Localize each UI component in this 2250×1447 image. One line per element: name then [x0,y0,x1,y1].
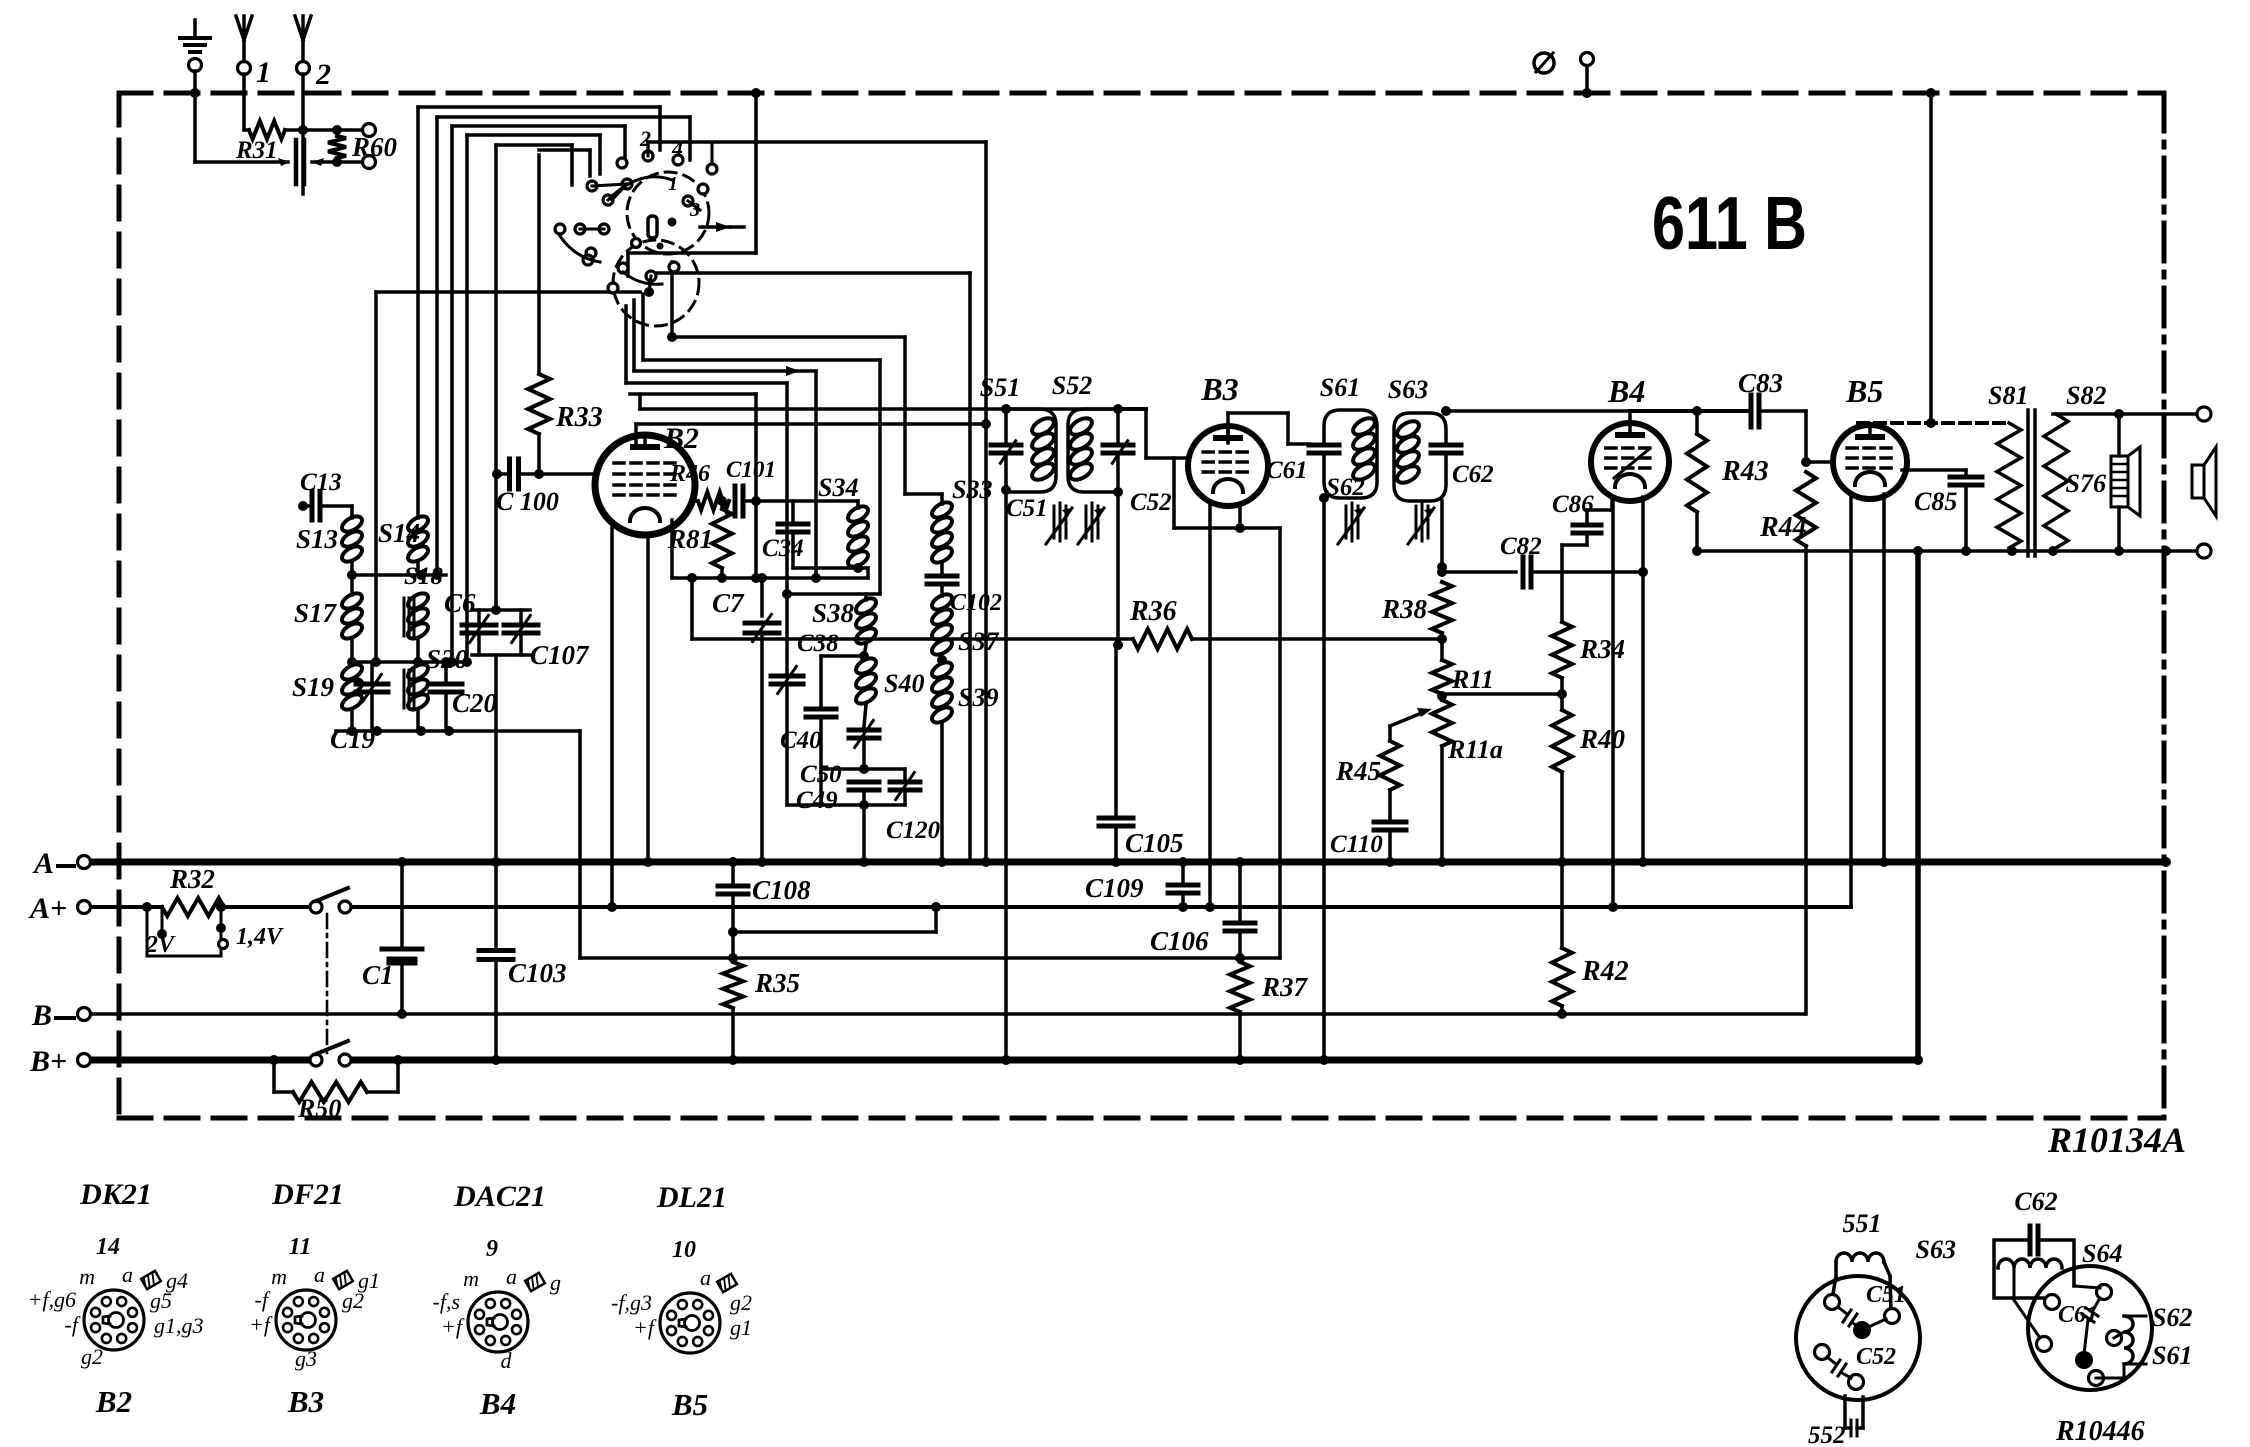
svg-text:B4: B4 [479,1386,516,1421]
svg-text:C62: C62 [1452,461,1494,488]
capacitor C82 [1521,557,1526,587]
wire S63 to B4 anode line [1446,409,1630,413]
svg-text:C101: C101 [726,457,776,482]
svg-text:C38: C38 [797,630,839,657]
antenna trimmer capacitor [294,140,299,184]
wire ground lead [193,71,197,162]
tube socket DF21 B3 [276,1290,336,1350]
svg-text:C108: C108 [752,875,811,905]
wire cathode riser to S34 [866,568,870,578]
capacitor C51 inside plug [1838,1307,1847,1314]
wire output common [1697,549,2197,553]
resistor R46 [695,499,698,503]
loudspeaker [2192,465,2204,498]
svg-text:R10134A: R10134A [2047,1120,2186,1160]
svg-text:B2: B2 [95,1384,132,1419]
capacitor C108 [731,862,735,883]
wire bank bottom to bus [578,731,582,958]
battery C1 [400,862,404,949]
svg-text:A: A [32,847,54,880]
node R11 tap [1437,691,1447,701]
capacitor C106 [1238,862,1242,919]
wire S34 bottom [793,566,868,570]
osc tank bottom wire [787,803,905,807]
svg-text:1,4V: 1,4V [236,924,284,950]
svg-text:DK21: DK21 [79,1178,152,1211]
svg-text:C40: C40 [780,727,822,754]
resistor R81 [720,501,724,509]
capacitor C13 [298,501,308,511]
svg-text:4: 4 [671,136,683,161]
svg-text:S33: S33 [952,475,992,504]
svg-text:C52: C52 [1130,489,1172,516]
capacitor C20 [444,662,448,680]
output transformer primary S81 [1997,423,2021,548]
svg-text:+f: +f [441,1314,465,1339]
pin 2 of R10446 [2097,1285,2112,1300]
resistor R60 [328,136,346,158]
IF can S61 [1324,410,1377,498]
wire anode to C83 [1630,409,1747,413]
coil S34 [856,501,860,508]
wire coil bank bottom [336,729,580,733]
svg-text:S81: S81 [1988,381,2028,410]
wire A+ riser to B5 [1850,906,1852,908]
svg-text:C13: C13 [300,469,342,496]
resistor R45 [1380,741,1400,790]
wire antenna 2 lead [301,74,305,194]
capacitor C61 inside plug [2092,1298,2100,1312]
trimmer arrows S61 S63 [1345,506,1348,538]
svg-text:R45: R45 [1335,756,1381,786]
wire R60 bottom [312,160,362,164]
wire bundle h5 [496,143,572,147]
svg-text:C86: C86 [1552,491,1594,518]
svg-text:R10446: R10446 [2055,1416,2145,1447]
rail A- (heavy) [90,859,2166,866]
pentode B5 [1833,425,1907,499]
IF can S63 [1394,413,1446,501]
svg-text:d: d [501,1348,513,1373]
svg-text:B5: B5 [1845,373,1883,409]
node coilbank mid [347,657,357,667]
switch B+ battery [310,1054,322,1066]
center pin 552 [1853,1321,1871,1339]
svg-text:C61: C61 [1266,457,1308,484]
center pin R10446 [2075,1351,2093,1369]
osc tank top wire [787,592,880,596]
capacitor C101 [733,486,738,516]
variable capacitor C107 [519,610,523,622]
potentiometer R11a [1432,700,1452,746]
capacitor C34 [791,501,795,520]
svg-text:A+: A+ [28,892,67,925]
coil S37 [929,591,954,612]
plug 552 tail [1843,1396,1847,1428]
wire contact2 long [648,140,986,144]
svg-text:14: 14 [96,1234,120,1260]
svg-text:R33: R33 [555,402,603,433]
variable capacitor C38 [785,594,789,672]
svg-text:S62: S62 [1326,474,1365,501]
B3 filament lead [1208,502,1212,907]
antenna 2 symbol [295,16,303,40]
svg-text:C102: C102 [950,590,1002,616]
coil S19 [339,661,364,682]
wire S52 down [1116,492,1120,645]
coil S63 S64 box [1994,1240,2046,1298]
resistor R32 [162,898,224,916]
wire rotor right 5 [630,392,756,396]
svg-text:-f,g3: -f,g3 [611,1290,652,1315]
wire R31 to terminal [303,128,331,132]
resistor R40 [1552,710,1572,772]
switch contacts wafer2 [555,224,565,234]
svg-text:B3: B3 [1200,371,1238,407]
capacitor C83 [1749,395,1754,427]
pin 2 of 552 [1885,1309,1900,1324]
svg-text:DF21: DF21 [271,1178,344,1211]
switch rotor arrow [700,225,730,229]
svg-text:R81: R81 [667,524,713,554]
wire bundle h3 [452,124,625,128]
rail A- end dot [2161,857,2171,867]
switch A+ battery [310,901,322,913]
wire R11 tap to R40 [1442,692,1562,696]
rail B+ (heavy) [90,1057,311,1064]
svg-text:S76: S76 [2066,469,2106,498]
svg-text:1: 1 [668,173,678,195]
svg-text:B4: B4 [1607,373,1645,409]
svg-text:S19: S19 [292,672,335,702]
pin 3 of 552 [1815,1345,1830,1360]
tube socket DK21 B2 [84,1290,144,1350]
rail B- [90,1012,1804,1016]
svg-text:S17: S17 [294,598,338,628]
svg-text:R37: R37 [1261,972,1309,1002]
coil S13 [350,506,354,518]
wire B+ riser to output [1915,551,1921,1060]
wire center to pin2 [1862,1319,1886,1330]
svg-text:S82: S82 [2066,381,2106,410]
chassis dashed border [119,91,2164,96]
connector plug 552 circle [1796,1276,1920,1400]
svg-text:C107: C107 [530,640,590,670]
svg-text:C110: C110 [1330,831,1383,858]
svg-text:1: 1 [256,56,271,89]
coil S17 [339,590,364,611]
wire bundle h4 [467,133,600,137]
B4 cathode lead [1641,497,1645,862]
svg-text:B5: B5 [671,1387,708,1422]
svg-text:S63: S63 [1388,375,1428,404]
capacitor C109 [1181,862,1185,881]
capacitor C61 [1309,443,1339,448]
wire C19 feed from switch [374,292,378,662]
capacitor C100 [497,472,506,476]
svg-text:C120: C120 [886,817,941,844]
coil S39 [929,659,954,680]
svg-text:C109: C109 [1085,873,1144,903]
connector plug R10446 circle [2028,1266,2152,1390]
capacitor C105 [1114,645,1118,814]
wire C82 line [1442,570,1516,574]
node S13/S17 [347,570,357,580]
pin 1 of 552 [1825,1295,1840,1310]
switch contacts wafer1 [643,151,653,161]
wire C6 bottom bus [472,653,530,657]
svg-text:C82: C82 [1500,533,1542,560]
svg-text:g: g [550,1270,561,1295]
wire rotor right 4 [624,306,628,383]
coil S38 [864,594,868,600]
svg-text:R40: R40 [1579,724,1626,754]
svg-text:S40: S40 [884,669,924,698]
coil S18 with core [405,590,430,611]
svg-text:2V: 2V [145,932,176,958]
svg-text:R34: R34 [1579,634,1625,664]
svg-text:552: 552 [1808,1422,1846,1447]
svg-text:S38: S38 [812,598,855,628]
wire cathode bus y578 [672,576,868,580]
B5 filament lead A- [1882,494,1886,862]
svg-text:S51: S51 [980,373,1020,402]
svg-text:R43: R43 [1721,456,1769,487]
wire rotor right 1 [670,262,674,337]
svg-text:g2: g2 [342,1288,364,1313]
tube socket DL21 B5 [660,1293,720,1353]
capacitor C62 [1431,443,1461,448]
switch arcs [608,177,672,200]
wire B3 grid return [1172,458,1176,528]
svg-text:+f: +f [633,1315,657,1340]
wire C83 to B5 grid [1759,409,1806,413]
pin 4 of R10446 [2107,1331,2122,1346]
triode B3 [1188,426,1268,506]
svg-text:C34: C34 [762,535,804,562]
svg-text:C62: C62 [2014,1187,2057,1216]
resistor R38 [1432,582,1452,633]
svg-text:S61: S61 [2152,1341,2192,1370]
resistor R34 [1560,545,1564,622]
svg-text:C61: C61 [2058,1302,2098,1328]
wire B2 grid cap [634,424,638,445]
switch extra contacts [707,164,717,174]
svg-text:C85: C85 [1914,487,1957,516]
svg-text:S62: S62 [2152,1303,2192,1332]
svg-text:C 100: C 100 [496,487,559,516]
wire to S51 top [640,407,1006,411]
svg-text:611 B: 611 B [1652,181,1807,265]
pin 5 of R10446 [2089,1371,2104,1386]
rail A+ [90,905,162,909]
svg-text:C49: C49 [796,787,838,814]
ground symbol [193,20,197,38]
wire S51 to B+ [1004,490,1008,1060]
svg-text:S39: S39 [958,683,998,712]
capacitor C103 [494,862,498,947]
svg-text:m: m [79,1264,95,1289]
wire C6 bus [472,608,530,612]
IF can S51 [1004,409,1008,441]
B2 cathode lead [670,520,674,578]
wire S62 to B+ [1322,498,1326,1060]
variable capacitor C6 [477,610,481,622]
svg-text:g5: g5 [150,1288,172,1313]
B4 filament lead [1611,497,1615,907]
wire B4 anode [1628,411,1632,423]
capacitor C102 [940,564,944,572]
capacitor C49 [849,780,879,785]
wire B3 anode [1226,413,1230,443]
svg-text:a: a [506,1264,517,1289]
pin 4 of 552 [1849,1375,1864,1390]
wire C108 to A+ tap [733,930,936,934]
svg-text:R11a: R11a [1447,735,1503,764]
wire osc line down [984,142,988,862]
wire S52 to B3 grid [1118,407,1146,411]
svg-text:S37: S37 [958,627,999,656]
wire y958 bus [580,956,1280,960]
svg-text:+f,g6: +f,g6 [28,1287,76,1312]
svg-text:R42: R42 [1581,956,1629,987]
wire top border to B5 cap [1929,93,1933,423]
svg-text:R38: R38 [1381,594,1428,624]
wire B5 grid cap dashed [1858,421,2006,425]
B2 filament lead left [610,523,614,907]
svg-text:g3: g3 [295,1346,317,1371]
node S38/S40 [859,651,869,661]
svg-text:B3: B3 [287,1384,324,1419]
resistor R44 [1796,472,1816,546]
resistor R35 [723,962,743,1008]
svg-text:a: a [314,1262,325,1287]
node R38/R36 [1437,634,1447,644]
svg-text:11: 11 [289,1234,312,1260]
switch rotor slot [648,216,657,238]
wire rotor right 3 [632,300,636,371]
hum coil S76 [2117,414,2121,456]
svg-text:S61: S61 [1320,373,1360,402]
svg-text:R50: R50 [297,1094,341,1123]
svg-text:g2: g2 [81,1344,103,1369]
R32 tap box [147,907,221,956]
B5 filament lead A+ [1849,494,1853,907]
node R34/R40 [1557,689,1567,699]
svg-text:C7: C7 [712,588,745,618]
pin 3 of R10446 [2037,1337,2052,1352]
svg-text:R32: R32 [169,864,215,894]
resistor R37 [1230,962,1250,1012]
wire bundle h1 [418,105,660,109]
coil S40 [853,655,878,676]
svg-text:B2: B2 [663,422,699,455]
svg-text:+f: +f [249,1312,273,1337]
svg-text:C105: C105 [1125,828,1184,858]
svg-text:C50: C50 [800,761,842,788]
capacitor C40 [821,654,864,658]
svg-text:C52: C52 [1856,1344,1896,1370]
svg-text:C51: C51 [1866,1282,1906,1308]
B2 filament lead right [646,534,650,862]
IF can S52 [1068,409,1118,492]
svg-text:S14: S14 [378,518,420,548]
phone jack symbol [1534,53,1554,73]
svg-text:a: a [700,1265,711,1290]
resistor R42 [1560,862,1564,948]
link dash-dot switches [326,914,329,1053]
capacitor C52 [1116,409,1120,441]
svg-text:R11: R11 [1451,665,1494,694]
resistor R43 [1695,411,1699,434]
switch wafer 1 dashed circle [627,172,709,254]
wire grid return riser [1278,528,1282,958]
antenna 1 symbol [236,16,244,40]
svg-text:C106: C106 [1150,926,1209,956]
svg-text:R36: R36 [1129,596,1177,627]
svg-text:S52: S52 [1052,371,1092,400]
svg-text:S63: S63 [1916,1235,1956,1264]
coil S62 S61 [2124,1316,2133,1364]
transformer core [2026,410,2030,556]
triode B2 [595,435,695,535]
switch wafer 2 dashed circle [613,240,699,326]
pin 1 of R10446 [2045,1295,2060,1310]
svg-text:B: B [31,999,52,1032]
capacitor C86 [1610,498,1614,510]
wire secondary top [2053,412,2197,416]
node S37/S39 [937,655,947,665]
coil S14 [405,513,430,534]
tube socket DAC21 B4 [468,1292,528,1352]
svg-text:C51: C51 [1006,495,1048,522]
coil S20 with core [405,661,430,682]
variable capacitor C50 [864,705,866,726]
svg-text:R31: R31 [235,137,278,164]
svg-text:551: 551 [1843,1209,1882,1238]
svg-text:m: m [463,1266,479,1291]
wire rotor right 2 [641,294,645,360]
wire C49 C120 top [823,767,905,771]
svg-text:-f,s: -f,s [433,1289,461,1314]
svg-text:R35: R35 [754,968,800,998]
svg-text:g2: g2 [730,1290,752,1315]
variable capacitor C120 [903,769,907,778]
svg-text:S64: S64 [2082,1239,2122,1268]
variable capacitor C7 [760,578,764,616]
capacitor C51 [991,443,1021,448]
wire C101 node right [756,499,858,503]
svg-text:m: m [271,1264,287,1289]
svg-text:S34: S34 [818,473,858,502]
svg-text:B+: B+ [29,1045,67,1078]
wire rotor right 1b [649,273,653,281]
B3 cathode lead [1238,504,1242,528]
wire tank to rail [862,805,866,862]
wire S51 area [1001,404,1011,414]
capacitor C110 [1388,790,1392,818]
resistor R36 [690,578,694,639]
svg-text:C1: C1 [362,960,394,990]
capacitor C52 inside plug [1827,1357,1836,1364]
svg-text:9: 9 [486,1236,498,1262]
wire bundle h2 [437,115,690,119]
svg-text:C20: C20 [452,688,498,718]
svg-text:DL21: DL21 [656,1181,727,1214]
capacitor C85 [1902,468,1966,472]
svg-text:g1: g1 [730,1315,752,1340]
wire antenna 1 lead [242,74,246,130]
